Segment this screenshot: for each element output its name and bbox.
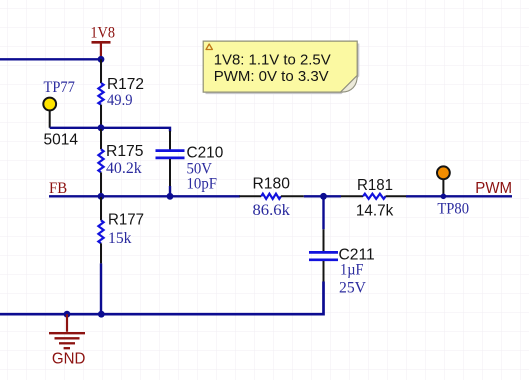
svg-text:FB: FB (49, 180, 67, 197)
node junction ground bus / GND symbol (64, 311, 71, 318)
svg-text:49.9: 49.9 (107, 92, 133, 109)
node junction TP80 on PWM wire (441, 194, 447, 200)
C210 voltage 50V (187, 161, 213, 178)
test point TP77 (43, 98, 56, 128)
C210 value 10pF (187, 176, 218, 193)
wire: top-left horizontal to 1V8 column (0, 58, 101, 60)
R172 designator (107, 76, 144, 93)
net label PWM (475, 180, 512, 197)
svg-text:5014: 5014 (44, 131, 79, 148)
R180 designator (253, 175, 290, 192)
R175 designator (106, 143, 144, 160)
ground symbol (49, 314, 85, 348)
TP77 part number 5014 (44, 131, 79, 148)
resistor R175 (98, 129, 103, 196)
net label 1V8 (90, 24, 115, 41)
capacitor C210 (156, 131, 185, 186)
capacitor C211 (309, 196, 338, 281)
svg-text:TP77: TP77 (44, 79, 75, 96)
svg-text:PWM: 0V to 3.3V: PWM: 0V to 3.3V (214, 68, 329, 85)
wire: R180 to junction (304, 195, 341, 197)
ground net label GND (52, 350, 86, 367)
net label FB (49, 180, 67, 197)
svg-text:R177: R177 (108, 211, 144, 228)
resistor R181 (341, 194, 406, 199)
svg-text:R172: R172 (107, 76, 144, 93)
node junction TP77/R172/R175/C210 (98, 124, 105, 131)
note text line 2 (214, 68, 329, 85)
note / text frame (203, 41, 358, 93)
R181 designator (357, 177, 393, 194)
R177 value 15k (108, 230, 132, 247)
C211 designator (339, 246, 375, 263)
TP80 label (437, 200, 469, 217)
test point TP80 (437, 166, 450, 196)
wire: C210 bottom to FB wire (169, 186, 171, 196)
svg-text:10pF: 10pF (187, 176, 218, 193)
svg-text:1V8: 1V8 (90, 24, 115, 41)
resistor R172 (98, 59, 103, 128)
wire: R181 to PWM (406, 195, 512, 197)
power port 1V8 (bar symbol) (92, 42, 111, 56)
R180 value 86.6k (253, 202, 290, 219)
svg-text:14.7k: 14.7k (356, 202, 394, 219)
resistor R177 (98, 197, 103, 263)
R172 value 49.9 (107, 92, 133, 109)
resistor R180 (239, 194, 303, 199)
C211 value 1uF (340, 262, 364, 279)
R175 value 40.2k (106, 160, 142, 177)
svg-text:25V: 25V (339, 280, 366, 297)
wire: TP77 to main column (50, 127, 101, 129)
svg-text:R181: R181 (357, 177, 393, 194)
svg-text:R175: R175 (106, 143, 144, 160)
TP77 label (44, 79, 75, 96)
note warning icon (206, 44, 212, 50)
wire: C211 to ground bus (0, 282, 324, 315)
C211 voltage 25V (339, 280, 366, 297)
wire: main column to C210 branch (101, 128, 170, 132)
svg-text:C210: C210 (187, 145, 224, 162)
svg-text:15k: 15k (108, 230, 132, 247)
wire: FB horizontal run (49, 195, 240, 197)
svg-text:1V8: 1.1V to 2.5V: 1V8: 1.1V to 2.5V (214, 52, 331, 69)
svg-text:GND: GND (52, 350, 86, 367)
R177 designator (108, 211, 144, 228)
node junction R180/R181/C211 (320, 193, 327, 200)
svg-text:PWM: PWM (475, 180, 512, 197)
node junction ground bus / R177 (98, 311, 105, 318)
R181 value 14.7k (356, 202, 394, 219)
svg-text:R180: R180 (253, 175, 290, 192)
node junction FB/main column (98, 193, 105, 200)
wire: R177 to ground bus (100, 263, 102, 314)
svg-text:TP80: TP80 (437, 200, 469, 217)
node junction at 1V8 column / top wire (98, 56, 105, 63)
node junction FB/C210 (167, 193, 174, 200)
svg-text:40.2k: 40.2k (106, 160, 142, 177)
svg-text:86.6k: 86.6k (253, 202, 290, 219)
svg-text:1µF: 1µF (340, 262, 364, 279)
note text line 1 (214, 52, 331, 69)
C210 designator (187, 145, 224, 162)
